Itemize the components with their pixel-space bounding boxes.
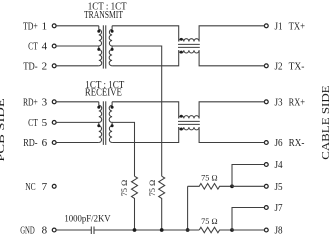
label J6 RX- (275, 137, 305, 149)
wire choke to J2 (199, 50, 264, 66)
svg-text:J6: J6 (275, 137, 284, 149)
pin 7 NC terminal (52, 184, 56, 188)
svg-text:J4: J4 (275, 159, 284, 171)
svg-text:J1: J1 (275, 21, 283, 33)
common-mode choke (receive) core (178, 121, 200, 124)
svg-text:75 Ω: 75 Ω (148, 180, 157, 197)
svg-text:1000pF/2KV: 1000pF/2KV (64, 215, 110, 225)
wire RD- pin6 to transformer (56, 142, 99, 144)
svg-text:75 Ω: 75 Ω (120, 180, 129, 197)
pin 4 CT terminal (52, 44, 56, 48)
terminal J6 (264, 141, 268, 145)
label pin CT 5 (28, 117, 48, 129)
pin 5 CT terminal (52, 121, 56, 125)
svg-text:TX+: TX+ (289, 21, 305, 33)
svg-text:J8: J8 (275, 224, 284, 236)
svg-text:J3: J3 (275, 97, 284, 109)
wire transmit secondary top to choke (112, 26, 179, 42)
svg-text:PCB SIDE: PCB SIDE (0, 98, 7, 162)
svg-text:TD+: TD+ (23, 21, 38, 33)
common-mode choke (transmit) bottom winding (179, 50, 199, 53)
transmit primary polarity dot (top) (97, 30, 100, 33)
svg-text:8: 8 (42, 225, 48, 237)
junction dot rail / transmit CT resistor (160, 228, 164, 232)
svg-text:CABLE SIDE: CABLE SIDE (320, 85, 332, 160)
label pin CT 4 (28, 41, 48, 53)
label pin RD- 6 (23, 137, 47, 149)
wire receive secondary bottom to choke (112, 127, 179, 142)
pin 6 RD- terminal (52, 141, 56, 145)
common-mode choke (transmit) core (178, 44, 200, 47)
wire CT pin5 to transformer (56, 121, 99, 123)
junction dot rail / receive CT resistor (133, 228, 137, 232)
svg-text:RX-: RX- (289, 137, 305, 149)
wire node to J4 (232, 165, 264, 187)
wire node to J5 (232, 185, 264, 187)
terminal J3 (264, 100, 268, 104)
wire choke to J1 (199, 26, 264, 42)
wire receive secondary top to choke (112, 102, 179, 119)
svg-text:7: 7 (42, 181, 48, 193)
wire choke to J6 (199, 127, 264, 142)
transformer RECEIVE core (103, 101, 105, 145)
pin 3 RD+ terminal (52, 100, 56, 104)
svg-text:TD-: TD- (23, 61, 38, 73)
wire node to J7 (232, 208, 264, 231)
transformer RECEIVE primary winding (99, 102, 102, 143)
svg-text:75 Ω: 75 Ω (201, 173, 218, 182)
svg-text:RD+: RD+ (23, 97, 38, 109)
receive choke top dot (180, 115, 183, 118)
transmit secondary polarity dot (lower) (111, 48, 114, 51)
transmit secondary polarity dot (top) (111, 30, 114, 33)
svg-text:3: 3 (42, 97, 48, 109)
wire GND pin8 to capacitor (56, 229, 91, 231)
pin 2 TD- terminal (52, 64, 56, 68)
svg-text:TRANSMIT: TRANSMIT (84, 9, 123, 21)
label pin RD+ 3 (23, 97, 48, 109)
receive choke bottom dot (180, 128, 183, 131)
transformer RECEIVE secondary winding (109, 102, 112, 143)
svg-text:75 Ω: 75 Ω (201, 217, 218, 226)
common-mode choke (transmit) top winding (179, 39, 199, 42)
terminal J2 (264, 64, 268, 68)
junction dot J7/J8 node (230, 228, 234, 232)
label J2 TX- (275, 61, 305, 73)
pin 1 TD+ terminal (52, 24, 56, 28)
svg-text:4: 4 (42, 41, 48, 53)
svg-text:6: 6 (42, 137, 48, 149)
ground rail from capacitor (94, 229, 199, 231)
wire choke to J3 (199, 102, 264, 119)
label pin GND 8 (20, 225, 47, 237)
svg-text:NC: NC (25, 181, 35, 193)
wire receive secondary center tap down to resistor (112, 122, 134, 176)
svg-text:CT: CT (28, 117, 38, 129)
common-mode choke (receive) top winding (179, 116, 199, 119)
svg-text:CT: CT (28, 41, 38, 53)
wire TD- pin2 to transformer (56, 65, 99, 67)
wire transmit secondary center tap down to resistor (112, 46, 162, 176)
resistor 75 ohm (vertical, receive CT) (132, 176, 138, 230)
wire resistor left leg down to ground rail (187, 186, 189, 230)
label pin TD+ 1 (23, 21, 47, 33)
receive secondary polarity dot (top) (111, 106, 114, 109)
transformer TRANSMIT primary winding (99, 26, 102, 66)
svg-text:RD-: RD- (23, 137, 38, 149)
wire transmit secondary bottom to choke (112, 50, 179, 66)
terminal J5 (264, 184, 268, 188)
junction dot J4/J5 node (230, 184, 234, 188)
terminal J7 (264, 206, 268, 210)
transformer TRANSMIT core (103, 25, 105, 68)
resistor 75 ohm (horizontal, J4/J5) (188, 184, 232, 190)
svg-text:1: 1 (42, 21, 48, 33)
label J3 RX+ (275, 97, 306, 109)
wire rail to J8 (232, 229, 264, 231)
receive secondary polarity dot (lower) (111, 124, 114, 127)
terminal J1 (264, 24, 268, 28)
transmit primary polarity dot (lower) (97, 48, 100, 51)
resistor 75 ohm (horizontal, on rail J7/J8) (199, 227, 232, 233)
wire RD+ pin3 to transformer (56, 101, 99, 103)
pin 8 GND terminal (52, 228, 56, 232)
svg-text:RECEIVE: RECEIVE (85, 87, 122, 99)
terminal J4 (264, 163, 268, 167)
svg-text:J7: J7 (275, 202, 284, 214)
receive primary polarity dot (lower) (97, 124, 100, 127)
resistor 75 ohm (vertical, transmit CT) (159, 176, 165, 230)
svg-text:TX-: TX- (289, 61, 305, 73)
receive primary polarity dot (top) (97, 106, 100, 109)
wire CT pin4 to transformer (56, 45, 99, 47)
svg-text:5: 5 (42, 117, 48, 129)
label pin TD- 2 (23, 61, 47, 73)
capacitor 1000pF/2KV (91, 227, 94, 235)
svg-text:RX+: RX+ (289, 97, 305, 109)
transmit choke top dot (180, 38, 183, 41)
wire TD+ pin1 to transformer (56, 25, 99, 27)
terminal J8 (264, 228, 268, 232)
svg-text:J2: J2 (275, 61, 283, 73)
junction dot resistor/rail (186, 228, 190, 232)
transmit choke bottom dot (180, 51, 183, 54)
label J1 TX+ (275, 21, 306, 33)
svg-text:GND: GND (20, 225, 35, 237)
transformer TRANSMIT secondary winding (109, 26, 112, 66)
svg-text:J5: J5 (275, 181, 284, 193)
common-mode choke (receive) bottom winding (179, 127, 199, 130)
label pin NC 7 (25, 181, 47, 193)
svg-text:2: 2 (42, 61, 48, 73)
